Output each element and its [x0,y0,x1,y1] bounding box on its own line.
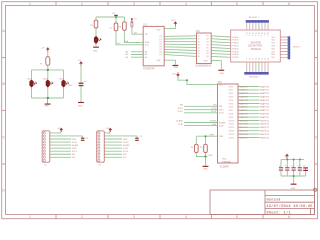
svg-text:BLANK: BLANK [176,120,183,123]
svg-text:14: 14 [261,59,263,61]
svg-text:manrice5: manrice5 [267,197,281,201]
svg-text:O5: O5 [206,47,209,49]
svg-text:O3: O3 [206,42,209,44]
svg-text:A1: A1 [145,53,147,56]
svg-text:IC5: IC5 [218,81,222,84]
svg-text:GND: GND [208,155,213,157]
svg-text:GND: GND [203,169,208,171]
svg-text:O4: O4 [206,44,209,46]
svg-text:11: 11 [252,59,254,61]
svg-text:I8: I8 [198,56,200,58]
svg-text:MATR3: MATR3 [239,96,248,99]
svg-text:SIN: SIN [180,105,184,107]
svg-text:6: 6 [288,2,290,6]
svg-text:5: 5 [236,215,238,219]
svg-text:MATR6: MATR6 [260,106,269,109]
svg-text:MATR15: MATR15 [239,136,248,139]
svg-text:C4: C4 [279,165,281,167]
svg-text:VCC: VCC [219,85,224,87]
svg-text:12/07/2014 10:50:25: 12/07/2014 10:50:25 [266,204,312,209]
svg-text:SOUT: SOUT [123,142,129,144]
svg-text:5: 5 [258,35,259,37]
svg-text:P0.MOD: P0.MOD [232,37,239,39]
svg-text:XLAT: XLAT [123,147,129,150]
svg-text:VCC: VCC [171,20,176,22]
svg-text:OUT7: OUT7 [229,110,234,112]
svg-text:MC6: MC6 [272,54,276,56]
svg-text:O7: O7 [206,53,209,55]
svg-text:MOD1 ?: MOD1 ? [293,47,301,49]
svg-text:MATR15: MATR15 [260,136,269,139]
svg-text:LED3: LED3 [59,79,65,81]
svg-text:SIN: SIN [213,105,217,107]
svg-text:MATR4: MATR4 [239,99,248,102]
svg-text:OUT1: OUT1 [229,90,234,92]
svg-text:1: 1 [29,2,31,6]
svg-text:SIN: SIN [123,154,127,156]
svg-text:XLAT: XLAT [212,123,218,126]
svg-text:3: 3 [133,2,135,6]
svg-text:PCF8574T: PCF8574T [143,67,155,70]
svg-text:16: 16 [267,59,269,61]
svg-text:IC2: IC2 [196,30,200,33]
svg-text:MATR0: MATR0 [260,85,269,88]
svg-text:THERMAL: THERMAL [222,160,231,163]
svg-text:MATR14: MATR14 [239,133,248,136]
svg-text:C7: C7 [298,165,300,167]
svg-text:I7: I7 [198,53,200,55]
svg-text:MC5: MC5 [272,51,276,53]
svg-text:4: 4 [185,215,187,219]
svg-text:3: 3 [133,215,135,219]
svg-text:IREF: IREF [210,134,215,136]
svg-text:P7.MOD: P7.MOD [232,57,239,59]
svg-text:C6: C6 [292,165,294,167]
svg-text:5: 5 [236,2,238,6]
svg-text:MC3: MC3 [272,46,276,48]
svg-text:I4: I4 [198,44,200,46]
svg-text:GND: GND [44,105,49,107]
svg-text:MATR3: MATR3 [260,96,269,99]
svg-text:MC1: MC1 [272,40,276,42]
svg-text:P4.MOD: P4.MOD [232,48,239,50]
svg-text:TLC5940NT: TLC5940NT [220,166,230,169]
svg-text:SCLK: SCLK [123,151,129,153]
svg-text:SIN: SIN [72,154,76,156]
svg-text:I6: I6 [198,50,200,52]
svg-text:MC0: MC0 [272,37,276,39]
svg-text:MATR8: MATR8 [239,113,248,116]
svg-text:P5.MOD: P5.MOD [232,51,239,53]
svg-text:VDD: VDD [157,30,162,32]
svg-text:MATR13: MATR13 [260,130,269,133]
svg-text:MATR10: MATR10 [239,119,248,122]
svg-text:15: 15 [264,59,266,61]
svg-text:OUT15: OUT15 [229,137,235,139]
svg-text:GND: GND [123,139,128,141]
svg-text:MATR1: MATR1 [260,89,269,92]
svg-text:2: 2 [81,215,83,219]
svg-text:I3: I3 [198,42,200,44]
svg-text:2: 2 [249,35,250,37]
svg-text:SCLK: SCLK [219,110,225,112]
svg-text:6: 6 [288,215,290,219]
svg-text:MATR9: MATR9 [260,116,269,119]
svg-text:C8: C8 [303,165,305,167]
svg-text:OUT8: OUT8 [229,114,234,116]
svg-text:BLANK: BLANK [123,144,130,147]
svg-text:MATR6: MATR6 [239,106,248,109]
svg-text:OUT4: OUT4 [229,100,234,102]
svg-text:MC4: MC4 [272,48,276,50]
svg-text:MATR5: MATR5 [239,102,248,105]
svg-text:GND: GND [93,51,98,53]
svg-text:MATR12: MATR12 [260,126,269,129]
svg-text:A0: A0 [145,51,147,54]
svg-text:4: 4 [185,2,187,6]
svg-text:9: 9 [246,59,247,61]
svg-text:MATR11: MATR11 [260,123,269,126]
svg-text:GND: GND [204,61,209,63]
svg-text:MATR10: MATR10 [260,119,269,122]
svg-text:OUT12: OUT12 [229,127,235,129]
svg-text:SCL: SCL [145,45,149,47]
svg-text:P2.MOD: P2.MOD [232,43,239,45]
svg-text:SDA: SDA [124,40,129,43]
svg-text:P3.MOD: P3.MOD [232,46,239,48]
svg-text:O8: O8 [206,56,209,58]
svg-text:BLANK: BLANK [72,144,79,147]
svg-text:MATR4: MATR4 [260,99,269,102]
svg-text:GND: GND [291,188,296,190]
svg-text:SOUT: SOUT [211,111,217,113]
svg-text:MC7: MC7 [272,57,276,59]
svg-text:OUT5: OUT5 [229,103,234,105]
svg-text:BLANK: BLANK [210,120,217,123]
svg-text:OUT13: OUT13 [229,131,235,133]
svg-text:GND: GND [220,73,225,75]
svg-text:8: 8 [267,35,268,37]
svg-text:MATR11: MATR11 [239,123,248,126]
svg-text:1: 1 [246,35,247,37]
svg-text:MATR12: MATR12 [239,126,248,129]
svg-text:MATR0: MATR0 [239,85,248,88]
svg-text:SCLK: SCLK [211,108,217,110]
svg-text:ML-MOD ?: ML-MOD ? [249,17,260,19]
svg-text:OUT9: OUT9 [229,117,234,119]
svg-text:OUT14: OUT14 [229,134,235,136]
svg-text:SCLK: SCLK [178,108,184,110]
svg-text:GND: GND [72,139,77,141]
svg-text:12: 12 [255,59,257,61]
svg-text:3: 3 [252,35,253,37]
svg-text:MATR8: MATR8 [260,113,269,116]
svg-text:SOUT: SOUT [177,111,183,113]
svg-text:MC2: MC2 [272,43,276,45]
svg-text:7: 7 [264,35,265,37]
svg-text:LED2: LED2 [43,79,49,81]
svg-text:OUT0: OUT0 [229,86,234,88]
svg-text:A2: A2 [145,56,147,59]
svg-text:MATR2: MATR2 [260,92,269,95]
svg-text:OUT3: OUT3 [229,97,234,99]
svg-text:SOUT: SOUT [219,113,225,115]
svg-text:OUT10: OUT10 [229,120,235,122]
svg-text:C5: C5 [285,165,287,167]
svg-text:OUT11: OUT11 [229,124,235,126]
svg-text:SOUT: SOUT [72,142,78,144]
svg-text:I1: I1 [198,36,200,38]
svg-text:10: 10 [249,59,251,61]
svg-text:XLAT: XLAT [72,147,78,150]
svg-text:XLAT: XLAT [178,123,184,126]
svg-text:MATR7: MATR7 [239,109,248,112]
svg-text:VCC: VCC [172,73,177,75]
svg-text:I2: I2 [198,39,200,41]
svg-text:BLANK: BLANK [219,121,226,124]
svg-text:GND: GND [78,105,83,107]
svg-text:O6: O6 [206,50,209,52]
svg-text:O2: O2 [206,39,209,41]
svg-text:MATR7: MATR7 [260,109,269,112]
svg-text:GND: GND [222,158,227,160]
svg-text:I5: I5 [198,47,200,49]
svg-text:MATR1: MATR1 [239,89,248,92]
svg-text:GND: GND [174,67,179,69]
svg-text:Sheet: 1/1: Sheet: 1/1 [266,211,291,216]
svg-text:P1.MOD: P1.MOD [232,40,239,42]
svg-text:ULN2803ALW: ULN2803ALW [195,65,211,68]
svg-text:MODULE: MODULE [251,48,262,51]
svg-text:LED1: LED1 [27,79,33,81]
svg-text:IC1: IC1 [144,23,148,26]
svg-text:OUT2: OUT2 [229,93,234,95]
svg-text:MATR5: MATR5 [260,102,269,105]
svg-text:SCLK: SCLK [72,151,78,153]
svg-text:1: 1 [29,215,31,219]
svg-text:P7: P7 [160,54,162,56]
svg-text:GND: GND [68,85,73,87]
svg-text:2: 2 [81,2,83,6]
svg-text:MATR14: MATR14 [260,133,269,136]
svg-text:4: 4 [255,35,256,37]
svg-text:P6.MOD: P6.MOD [232,54,239,56]
svg-text:O1: O1 [206,36,209,38]
svg-text:MATR9: MATR9 [239,116,248,119]
svg-text:6: 6 [261,35,262,37]
svg-text:OUT6: OUT6 [229,107,234,109]
svg-text:MATR2: MATR2 [239,92,248,95]
svg-text:MATR13: MATR13 [239,130,248,133]
svg-text:GROUND ?: GROUND ? [249,77,260,79]
svg-text:13: 13 [258,59,260,61]
